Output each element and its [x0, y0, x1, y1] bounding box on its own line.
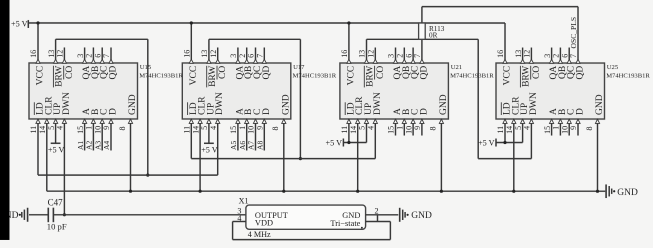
svg-text:4: 4 — [209, 126, 218, 130]
svg-text:8: 8 — [585, 127, 594, 131]
svg-text:6: 6 — [93, 54, 102, 58]
svg-text:1: 1 — [85, 126, 94, 130]
svg-text:11: 11 — [340, 126, 349, 134]
svg-text:+5 V: +5 V — [201, 145, 218, 154]
svg-text:14: 14 — [349, 126, 358, 134]
svg-text:VCC: VCC — [189, 66, 199, 86]
svg-text:6: 6 — [560, 54, 569, 58]
svg-text:DWN: DWN — [62, 92, 72, 115]
svg-text:7: 7 — [569, 54, 578, 58]
svg-text:VDD: VDD — [255, 219, 273, 228]
svg-text:C47: C47 — [48, 197, 64, 207]
svg-text:DWN: DWN — [215, 92, 225, 115]
svg-text:A1: A1 — [76, 141, 85, 150]
svg-text:1: 1 — [395, 126, 404, 130]
svg-text:14: 14 — [38, 126, 47, 134]
svg-text:16: 16 — [496, 50, 505, 58]
svg-text:12: 12 — [56, 50, 65, 58]
svg-text:A8: A8 — [255, 141, 264, 150]
svg-text:3: 3 — [543, 54, 552, 58]
svg-text:Tri−state: Tri−state — [330, 219, 360, 228]
svg-text:13: 13 — [47, 50, 56, 58]
svg-text:GND: GND — [128, 94, 138, 115]
svg-text:DWN: DWN — [529, 92, 539, 115]
svg-text:CO: CO — [218, 66, 228, 79]
svg-text:15: 15 — [543, 126, 552, 134]
svg-text:6: 6 — [404, 54, 413, 58]
svg-text:8: 8 — [118, 126, 127, 130]
svg-text:D: D — [419, 108, 429, 115]
svg-text:BRW: BRW — [55, 66, 65, 87]
svg-text:X1: X1 — [239, 196, 249, 205]
svg-text:15: 15 — [229, 126, 238, 134]
svg-text:U25: U25 — [607, 64, 619, 71]
svg-text:4: 4 — [366, 126, 375, 130]
svg-text:3: 3 — [229, 54, 238, 58]
svg-text:BRW: BRW — [366, 66, 376, 87]
svg-text:M74HC193B1R: M74HC193B1R — [606, 72, 650, 79]
svg-text:11: 11 — [496, 126, 505, 134]
svg-text:11: 11 — [29, 126, 38, 134]
svg-text:+5 V: +5 V — [11, 20, 28, 29]
svg-text:QD: QD — [576, 66, 586, 80]
svg-text:9: 9 — [413, 126, 422, 130]
svg-text:16: 16 — [340, 50, 349, 58]
svg-text:CO: CO — [65, 66, 75, 79]
svg-text:11: 11 — [182, 126, 191, 134]
svg-text:7: 7 — [102, 54, 111, 58]
svg-text:VCC: VCC — [36, 66, 46, 86]
svg-text:13: 13 — [514, 50, 523, 58]
svg-text:M74HC193B1R: M74HC193B1R — [450, 72, 494, 79]
svg-text:DWN: DWN — [373, 92, 383, 115]
svg-text:10: 10 — [560, 126, 569, 134]
svg-text:7: 7 — [413, 54, 422, 58]
svg-text:7: 7 — [256, 54, 265, 58]
svg-text:4: 4 — [523, 126, 532, 130]
svg-text:QD: QD — [109, 66, 119, 80]
svg-text:12: 12 — [209, 50, 218, 58]
svg-text:10: 10 — [247, 126, 256, 134]
svg-text:BRW: BRW — [208, 66, 218, 87]
svg-text:QD: QD — [262, 66, 272, 80]
svg-text:16: 16 — [29, 50, 38, 58]
svg-text:4: 4 — [56, 126, 65, 130]
svg-text:U15: U15 — [140, 64, 152, 71]
svg-text:A5: A5 — [229, 141, 238, 150]
svg-text:2: 2 — [238, 54, 247, 58]
svg-text:M74HC193B1R: M74HC193B1R — [139, 72, 183, 79]
svg-text:10: 10 — [404, 126, 413, 134]
svg-text:U17: U17 — [293, 64, 305, 71]
svg-text:5: 5 — [514, 126, 523, 130]
svg-text:14: 14 — [505, 126, 514, 134]
svg-text:15: 15 — [76, 126, 85, 134]
svg-text:8: 8 — [429, 127, 438, 131]
svg-text:2: 2 — [396, 54, 405, 58]
svg-text:9: 9 — [102, 126, 111, 130]
svg-text:15: 15 — [387, 126, 396, 134]
svg-text:A3: A3 — [93, 141, 102, 150]
svg-text:GND: GND — [595, 94, 605, 115]
svg-text:1: 1 — [238, 126, 247, 130]
svg-text:+5 V: +5 V — [325, 138, 342, 147]
svg-text:14: 14 — [191, 126, 200, 134]
svg-text:16: 16 — [183, 50, 192, 58]
svg-text:GND: GND — [617, 188, 638, 198]
svg-text:5: 5 — [358, 126, 367, 130]
svg-text:U21: U21 — [451, 64, 462, 71]
svg-text:GND: GND — [439, 94, 449, 115]
svg-text:6: 6 — [247, 54, 256, 58]
svg-text:12: 12 — [523, 50, 532, 58]
svg-text:2: 2 — [375, 206, 379, 215]
svg-text:1: 1 — [552, 126, 561, 130]
svg-text:D: D — [262, 108, 272, 115]
svg-text:VCC: VCC — [346, 66, 356, 86]
svg-text:A4: A4 — [102, 141, 111, 150]
svg-text:+5 V: +5 V — [48, 145, 65, 154]
svg-text:9: 9 — [255, 126, 264, 130]
svg-text:10 pF: 10 pF — [47, 222, 67, 232]
svg-text:2: 2 — [85, 54, 94, 58]
svg-text:VCC: VCC — [503, 66, 513, 86]
svg-text:10: 10 — [93, 126, 102, 134]
svg-text:+5 V: +5 V — [478, 138, 495, 147]
svg-text:CO: CO — [532, 66, 542, 79]
svg-text:D: D — [576, 108, 586, 115]
svg-text:A6: A6 — [238, 141, 247, 150]
svg-text:OSC_PLS: OSC_PLS — [569, 17, 578, 49]
svg-text:4 MHz: 4 MHz — [248, 230, 271, 239]
svg-text:GND: GND — [281, 94, 291, 115]
svg-text:D: D — [109, 108, 119, 115]
svg-text:0R: 0R — [429, 31, 438, 39]
svg-text:9: 9 — [569, 126, 578, 130]
svg-text:5: 5 — [200, 126, 209, 130]
svg-text:QD: QD — [419, 66, 429, 80]
svg-text:3: 3 — [387, 54, 396, 58]
svg-text:5: 5 — [47, 126, 56, 130]
svg-text:3: 3 — [76, 54, 85, 58]
svg-text:A2: A2 — [85, 141, 94, 150]
svg-text:CO: CO — [376, 66, 386, 79]
svg-text:BRW: BRW — [522, 66, 532, 87]
svg-text:M74HC193B1R: M74HC193B1R — [293, 72, 337, 79]
svg-text:13: 13 — [358, 50, 367, 58]
svg-text:2: 2 — [552, 54, 561, 58]
svg-text:8: 8 — [271, 126, 280, 130]
svg-text:12: 12 — [367, 50, 376, 58]
svg-text:GND: GND — [411, 211, 432, 221]
svg-text:13: 13 — [200, 50, 209, 58]
svg-text:A7: A7 — [247, 141, 256, 150]
